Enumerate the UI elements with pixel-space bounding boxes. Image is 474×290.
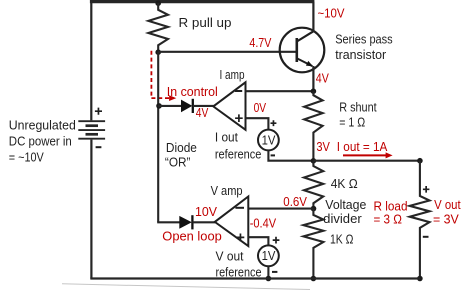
label: + at V out reference	[273, 237, 280, 244]
svg-text:I out: I out	[215, 130, 238, 145]
U2 non-inverting input marker	[237, 234, 245, 242]
svg-text:reference: reference	[215, 147, 262, 162]
label: - at V1 bottom	[271, 154, 275, 156]
voltage source V2 1V (V out reference)	[258, 245, 279, 266]
node: R shunt top / U1 tap	[311, 88, 317, 94]
wire: bus corner to diode D2	[157, 221, 179, 223]
wire: top supply rail	[90, 0, 315, 3]
voltage source V1 1V (I out reference)	[258, 130, 279, 151]
wire: divider node to U2 inverting input	[246, 208, 314, 210]
svg-text:Diode: Diode	[166, 140, 197, 155]
node: R pull up bottom / base wire junction	[155, 49, 161, 55]
svg-text:Series pass: Series pass	[335, 32, 393, 47]
svg-text:4.7V: 4.7V	[249, 35, 271, 50]
diode D2 (V amp OR diode)	[179, 215, 192, 229]
svg-text:V out: V out	[434, 197, 461, 212]
resistor R load	[410, 161, 430, 279]
node: bus to D1 branch	[156, 103, 162, 109]
label: - at battery	[96, 146, 102, 148]
label: + at I out reference	[271, 120, 277, 126]
resistor R1 4K (divider top)	[304, 161, 323, 209]
svg-text:V out: V out	[216, 248, 244, 263]
wire: bus to diode D1	[158, 105, 181, 107]
svg-text:1V: 1V	[262, 248, 276, 263]
label: + at battery	[95, 108, 102, 115]
wire: V1 to 3V node	[268, 150, 313, 160]
wire: bottom return rail	[90, 277, 420, 279]
node: 3V node	[311, 158, 317, 164]
battery B1	[78, 121, 105, 139]
wire: U1 non-inverting input to I out reference	[246, 118, 269, 130]
svg-text:reference: reference	[216, 265, 262, 280]
svg-text:Open loop: Open loop	[162, 229, 222, 244]
op-amp U2 (V amp)	[215, 197, 249, 247]
svg-text:V amp: V amp	[211, 183, 243, 198]
svg-text:1K Ω: 1K Ω	[330, 232, 354, 247]
transistor Q1	[280, 28, 325, 73]
svg-text:= 3 Ω: = 3 Ω	[374, 212, 403, 227]
svg-text:4V: 4V	[316, 71, 329, 86]
svg-text:divider: divider	[323, 211, 362, 226]
svg-text:3V: 3V	[316, 139, 330, 154]
node: R load bottom	[417, 276, 423, 282]
svg-text:-0.4V: -0.4V	[250, 216, 277, 231]
node: R load top	[417, 158, 423, 164]
svg-text:I amp: I amp	[220, 67, 245, 82]
page edge artifact	[62, 284, 310, 290]
svg-text:0V: 0V	[254, 100, 267, 115]
op-amp U1 (I amp)	[213, 82, 245, 130]
resistor R pull up	[148, 3, 168, 52]
svg-text:4K Ω: 4K Ω	[331, 176, 358, 191]
U1 inverting input marker	[235, 90, 242, 92]
dashed feedback path 'In control'	[151, 51, 169, 98]
wire: Q1 collector to top rail	[312, 2, 314, 32]
svg-text:R shunt: R shunt	[339, 99, 377, 114]
node: top rail / R pull up junction	[155, 0, 161, 6]
svg-text:I out = 1A: I out = 1A	[337, 139, 388, 154]
svg-text:10V: 10V	[195, 204, 217, 219]
U2 inverting input marker	[235, 207, 244, 209]
arrowhead: In control	[169, 95, 176, 101]
svg-text:= ~10V: = ~10V	[9, 150, 44, 165]
svg-text:4V: 4V	[196, 105, 209, 120]
svg-text:~10V: ~10V	[318, 5, 345, 20]
svg-text:DC power in: DC power in	[9, 134, 72, 149]
svg-text:= 3V: = 3V	[433, 212, 459, 227]
node: divider midpoint	[311, 206, 317, 212]
svg-text:1V: 1V	[262, 132, 276, 147]
node: V2 bottom	[266, 276, 272, 282]
wire: base wire to Q1	[158, 51, 296, 53]
wire: U2 non-inverting input to V out reference	[248, 237, 268, 245]
svg-text:“OR”: “OR”	[165, 154, 191, 169]
wire: battery bottom lead	[90, 140, 92, 279]
svg-text:= 1 Ω: = 1 Ω	[339, 114, 365, 129]
wire: V2 to bottom rail	[267, 266, 269, 278]
wire: 3V rail to R load	[313, 160, 420, 162]
node: 1K bottom	[311, 276, 317, 282]
wire: Q1 emitter to R shunt	[312, 66, 314, 91]
svg-text:Unregulated: Unregulated	[9, 117, 76, 132]
svg-text:In control: In control	[167, 84, 218, 99]
svg-text:0.6V: 0.6V	[283, 194, 307, 209]
label: - at V2 bottom	[272, 271, 277, 273]
wire: D1 to U1 output	[193, 105, 214, 107]
svg-text:R pull up: R pull up	[179, 15, 232, 30]
wire: battery top lead	[90, 2, 92, 121]
resistor R shunt	[304, 91, 322, 161]
diode D1 (I amp OR diode)	[181, 99, 193, 113]
arrow: I out direction	[343, 154, 386, 156]
wire: D2 to U2 output	[192, 221, 215, 223]
wire: diode-OR bus (vertical)	[157, 52, 159, 223]
label: - at R load	[423, 236, 429, 238]
svg-text:transistor: transistor	[335, 47, 387, 62]
U1 non-inverting input marker	[235, 114, 243, 122]
wire: U1 inverting input to R shunt top node	[246, 90, 314, 92]
label: + at R load	[423, 186, 430, 193]
resistor R2 1K (divider bottom)	[303, 209, 323, 279]
